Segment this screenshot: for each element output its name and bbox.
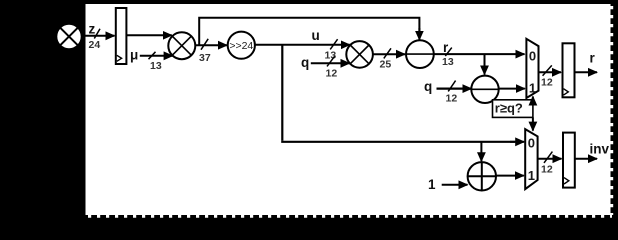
svg-text:u: u — [312, 28, 320, 43]
wire bottom rail to mux MX2 input 0 — [281, 141, 515, 143]
multiplier M2 — [346, 41, 373, 68]
wire u: S1 to multiplier M2 — [255, 44, 350, 46]
wire M2 to subtractor A1 — [373, 53, 405, 55]
wire branch from bottom rail down into xor X1 — [480, 142, 482, 161]
bus slash 12 — [543, 65, 552, 75]
page dashed right edge — [610, 6, 613, 215]
svg-text:13: 13 — [150, 60, 162, 72]
wire constant 1 into X1 — [442, 184, 468, 186]
svg-text:13: 13 — [442, 56, 454, 68]
wire M1 to shifter S1 — [195, 44, 227, 46]
svg-text:>>24: >>24 — [229, 40, 253, 52]
svg-text:1: 1 — [428, 177, 436, 192]
adder A2 — [471, 76, 498, 103]
svg-text:z: z — [89, 22, 96, 37]
wire MX1 to register REG2 — [539, 71, 562, 73]
register REG3 — [563, 133, 575, 188]
svg-text:0: 0 — [528, 136, 535, 151]
wire feedback rail: node at M1 output up and across to subtractor A1 — [199, 18, 419, 46]
bus slash 12 — [544, 152, 552, 163]
shifter S1 (>>24) — [228, 32, 255, 59]
bus slash 25 — [384, 48, 391, 58]
bus slash mu — [149, 52, 156, 59]
svg-text:13: 13 — [325, 49, 337, 61]
page area — [86, 4, 611, 215]
svg-text:q: q — [424, 79, 432, 94]
comparator box r>=q? — [493, 100, 533, 118]
svg-text:12: 12 — [541, 164, 553, 176]
bus slash r — [445, 48, 452, 56]
svg-text:1: 1 — [528, 168, 535, 183]
mux MX2 — [525, 129, 537, 189]
svg-text:r≥q?: r≥q? — [495, 101, 523, 116]
wire z: M0 to register REG1 — [83, 35, 115, 37]
wire MX2 to register REG3 — [538, 158, 562, 160]
wire q input to M2 — [311, 62, 350, 64]
svg-text:inv: inv — [590, 141, 610, 156]
svg-text:25: 25 — [380, 58, 392, 70]
svg-text:1: 1 — [529, 81, 536, 96]
subtractor A1 — [406, 40, 434, 68]
wire select up to MX1 — [532, 97, 534, 105]
multiplier M1 — [168, 32, 195, 59]
wire select down to MX2 — [532, 118, 534, 131]
bus slash u — [330, 39, 337, 49]
svg-text:q: q — [301, 55, 309, 70]
bus slash z — [94, 29, 100, 39]
page dashed bottom edge — [88, 215, 612, 218]
svg-text:0: 0 — [529, 49, 536, 64]
svg-text:37: 37 — [199, 52, 211, 64]
mux MX1 — [526, 39, 538, 98]
wire mu input to M1 — [140, 55, 173, 57]
bus slash q — [327, 56, 335, 66]
svg-text:24: 24 — [89, 39, 101, 51]
xor X1 — [468, 162, 496, 190]
bus slash 37 — [201, 39, 208, 50]
wire q input to A2 — [437, 87, 472, 89]
wire REG1 to multiplier M1 — [127, 34, 172, 36]
svg-text:12: 12 — [541, 76, 553, 88]
multiplier M0 (on black margin) — [57, 24, 82, 49]
svg-text:r: r — [590, 51, 596, 66]
svg-text:μ: μ — [130, 47, 138, 62]
wire X1 to mux MX2 input 1 — [496, 175, 524, 177]
wire REG3 output inv — [575, 158, 597, 160]
wire branch from u down to bottom rail — [281, 45, 283, 141]
register REG1 — [116, 8, 127, 64]
svg-text:12: 12 — [326, 68, 338, 80]
wire r: A1 to mux MX1 input 0 — [434, 53, 525, 55]
wire A2 to mux MX1 input 1 — [499, 88, 525, 90]
wire REG2 output r — [575, 71, 598, 73]
register REG2 — [563, 43, 575, 97]
bus slash q2 — [448, 81, 455, 92]
wire branch r down into adder A2 — [484, 54, 486, 74]
svg-text:12: 12 — [446, 92, 458, 104]
wire rail drop into A1 — [418, 28, 420, 40]
